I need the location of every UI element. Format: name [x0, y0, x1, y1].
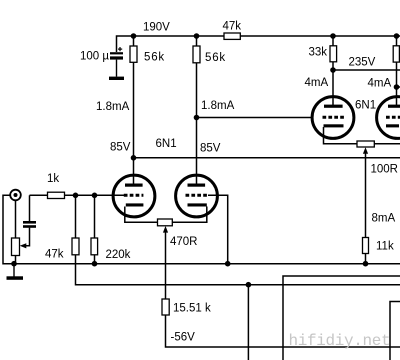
svg-text:56k: 56k [144, 52, 165, 64]
svg-text:6N1: 6N1 [355, 100, 376, 112]
plate bar V4 [388, 105, 400, 108]
wire tube3 cathode to 100R [324, 127, 358, 144]
resistor 33k [330, 46, 337, 62]
svg-text:100 µ: 100 µ [80, 51, 109, 63]
wire jack to pot [15, 201, 17, 238]
wire 220k grid branch [94, 195, 96, 263]
svg-text:4mA: 4mA [305, 77, 329, 89]
resistor 15.51k [162, 299, 169, 315]
plate bar V2 [188, 184, 206, 187]
wire 470R wiper down to 15.51k [165, 231, 167, 299]
resistor 220k [91, 238, 98, 255]
input jack connector [10, 190, 21, 201]
svg-text:1.8mA: 1.8mA [201, 100, 235, 112]
resistor 470R between cathodes [158, 219, 173, 226]
triode V3 (6N1 c) [312, 97, 354, 139]
svg-text:hifidiy.net: hifidiy.net [289, 332, 391, 350]
wire 190V rail [117, 36, 400, 52]
cathode bar V3 [324, 124, 344, 127]
wire cap to grid wire [29, 195, 31, 221]
wire ground rail [3, 263, 400, 265]
node rail-33k [330, 33, 336, 39]
plate bar V3 [324, 105, 343, 108]
node ground-tube2grid [225, 261, 231, 267]
wire pot wiper to cap [22, 228, 30, 246]
cathode bar V1 [126, 203, 144, 206]
wire node87 stub [397, 86, 400, 88]
wire 33k branch to tube3 plate [332, 36, 334, 106]
grid dashes V1 [124, 194, 144, 197]
node grid-220k [92, 193, 98, 199]
node 235V [330, 67, 336, 73]
wire tube4 plate branch [396, 36, 398, 106]
grid dashes V2 [186, 194, 209, 197]
wire 100R to tube4 cathode [374, 143, 400, 145]
potentiometer volume box [12, 238, 20, 256]
resistor 11k [363, 238, 369, 254]
node dots [11, 33, 399, 287]
wire tube2 plate to tube3 grid [197, 117, 313, 119]
svg-text:47k: 47k [223, 21, 242, 33]
node ground-220k [92, 261, 98, 267]
wire -56V rail [166, 315, 400, 347]
node ground-jack [11, 261, 17, 267]
wire tube2 plate branch [196, 36, 198, 184]
svg-text:470R: 470R [170, 236, 198, 248]
resistor 47k top (feedback) [224, 33, 240, 39]
cathode bar V4 [386, 124, 399, 127]
wire 235V [333, 69, 400, 71]
svg-text:190V: 190V [143, 22, 170, 34]
node 190V-C1 [131, 33, 137, 39]
wire plate output to right [134, 157, 400, 159]
svg-text:220k: 220k [106, 249, 131, 261]
wire speaker line down [247, 285, 249, 360]
node ground-11k [363, 261, 369, 267]
wire input to tube1 grid [30, 194, 125, 196]
resistor 56k #2 [193, 46, 200, 63]
output block inner box [390, 302, 400, 360]
svg-text:-56V: -56V [171, 332, 196, 344]
ground symbol (input) [7, 264, 24, 280]
svg-text:85V: 85V [200, 143, 221, 155]
triode V2 (6N1 b) [176, 175, 218, 217]
wiper arrow of 470R [163, 226, 168, 233]
ground bar under C1 [109, 77, 124, 80]
wire 100R wiper down to 11k [365, 153, 367, 238]
triode V1 (6N1 a) [113, 175, 155, 217]
plate bar V1 [125, 184, 143, 187]
svg-text:47k: 47k [45, 249, 64, 261]
wire C1 bottom lead [116, 60, 118, 77]
resistor 56k #1 [130, 46, 137, 62]
wire tube2 cathode to 470R [172, 207, 207, 223]
wiper arrow of 100R [363, 147, 368, 154]
wire tube1 plate branch [133, 36, 135, 184]
resistor 1k grid stopper [48, 192, 65, 198]
grid dashes V3 [323, 116, 345, 119]
svg-text:11k: 11k [376, 241, 394, 253]
output block box [283, 276, 400, 360]
capacitor input coupling plates [23, 221, 36, 228]
wire input jack ground [3, 195, 14, 263]
cathode bar V2 [188, 203, 207, 206]
svg-text:235V: 235V [349, 57, 376, 69]
svg-text:56k: 56k [205, 52, 226, 64]
node rail-tube4 [394, 33, 400, 39]
plus sign of C1 [119, 47, 120, 51]
wire tube1 cathode to 470R [125, 207, 158, 223]
wire tube2 grid to ground rail [208, 195, 228, 263]
svg-text:85V: 85V [110, 142, 131, 154]
capacitor C1 100u plates [109, 47, 124, 80]
wire pot bottom to ground rail [15, 256, 17, 264]
node feedback-speaker [246, 282, 252, 288]
triode V4 (6N1 d, clipped at edge) [377, 97, 400, 139]
svg-text:1k: 1k [47, 173, 59, 185]
svg-text:4mA: 4mA [368, 78, 392, 90]
resistor 47k input [72, 238, 79, 255]
svg-text:6N1: 6N1 [156, 138, 177, 150]
node 190V-56k2 [194, 33, 200, 39]
node grid-47k [73, 193, 79, 199]
svg-text:33k: 33k [309, 47, 328, 59]
potentiometer wiper arrow (volume) [20, 243, 27, 248]
wire 47k grid branch [75, 195, 77, 238]
node tube1 plate out [131, 155, 137, 161]
svg-text:15.51 k: 15.51 k [173, 303, 211, 315]
svg-text:1.8mA: 1.8mA [96, 101, 130, 113]
resistor 33k right (tube4 plate) [393, 46, 399, 62]
node tube2 plate / tube3 grid [194, 115, 200, 121]
resistor 100R between cathodes [357, 141, 374, 147]
svg-text:100R: 100R [371, 164, 399, 176]
grid dashes V4 [386, 116, 400, 119]
svg-text:8mA: 8mA [372, 213, 396, 225]
wire 11k to ground rail [365, 254, 367, 264]
wire feedback rail [76, 255, 400, 285]
node tube4 plate [394, 84, 400, 90]
